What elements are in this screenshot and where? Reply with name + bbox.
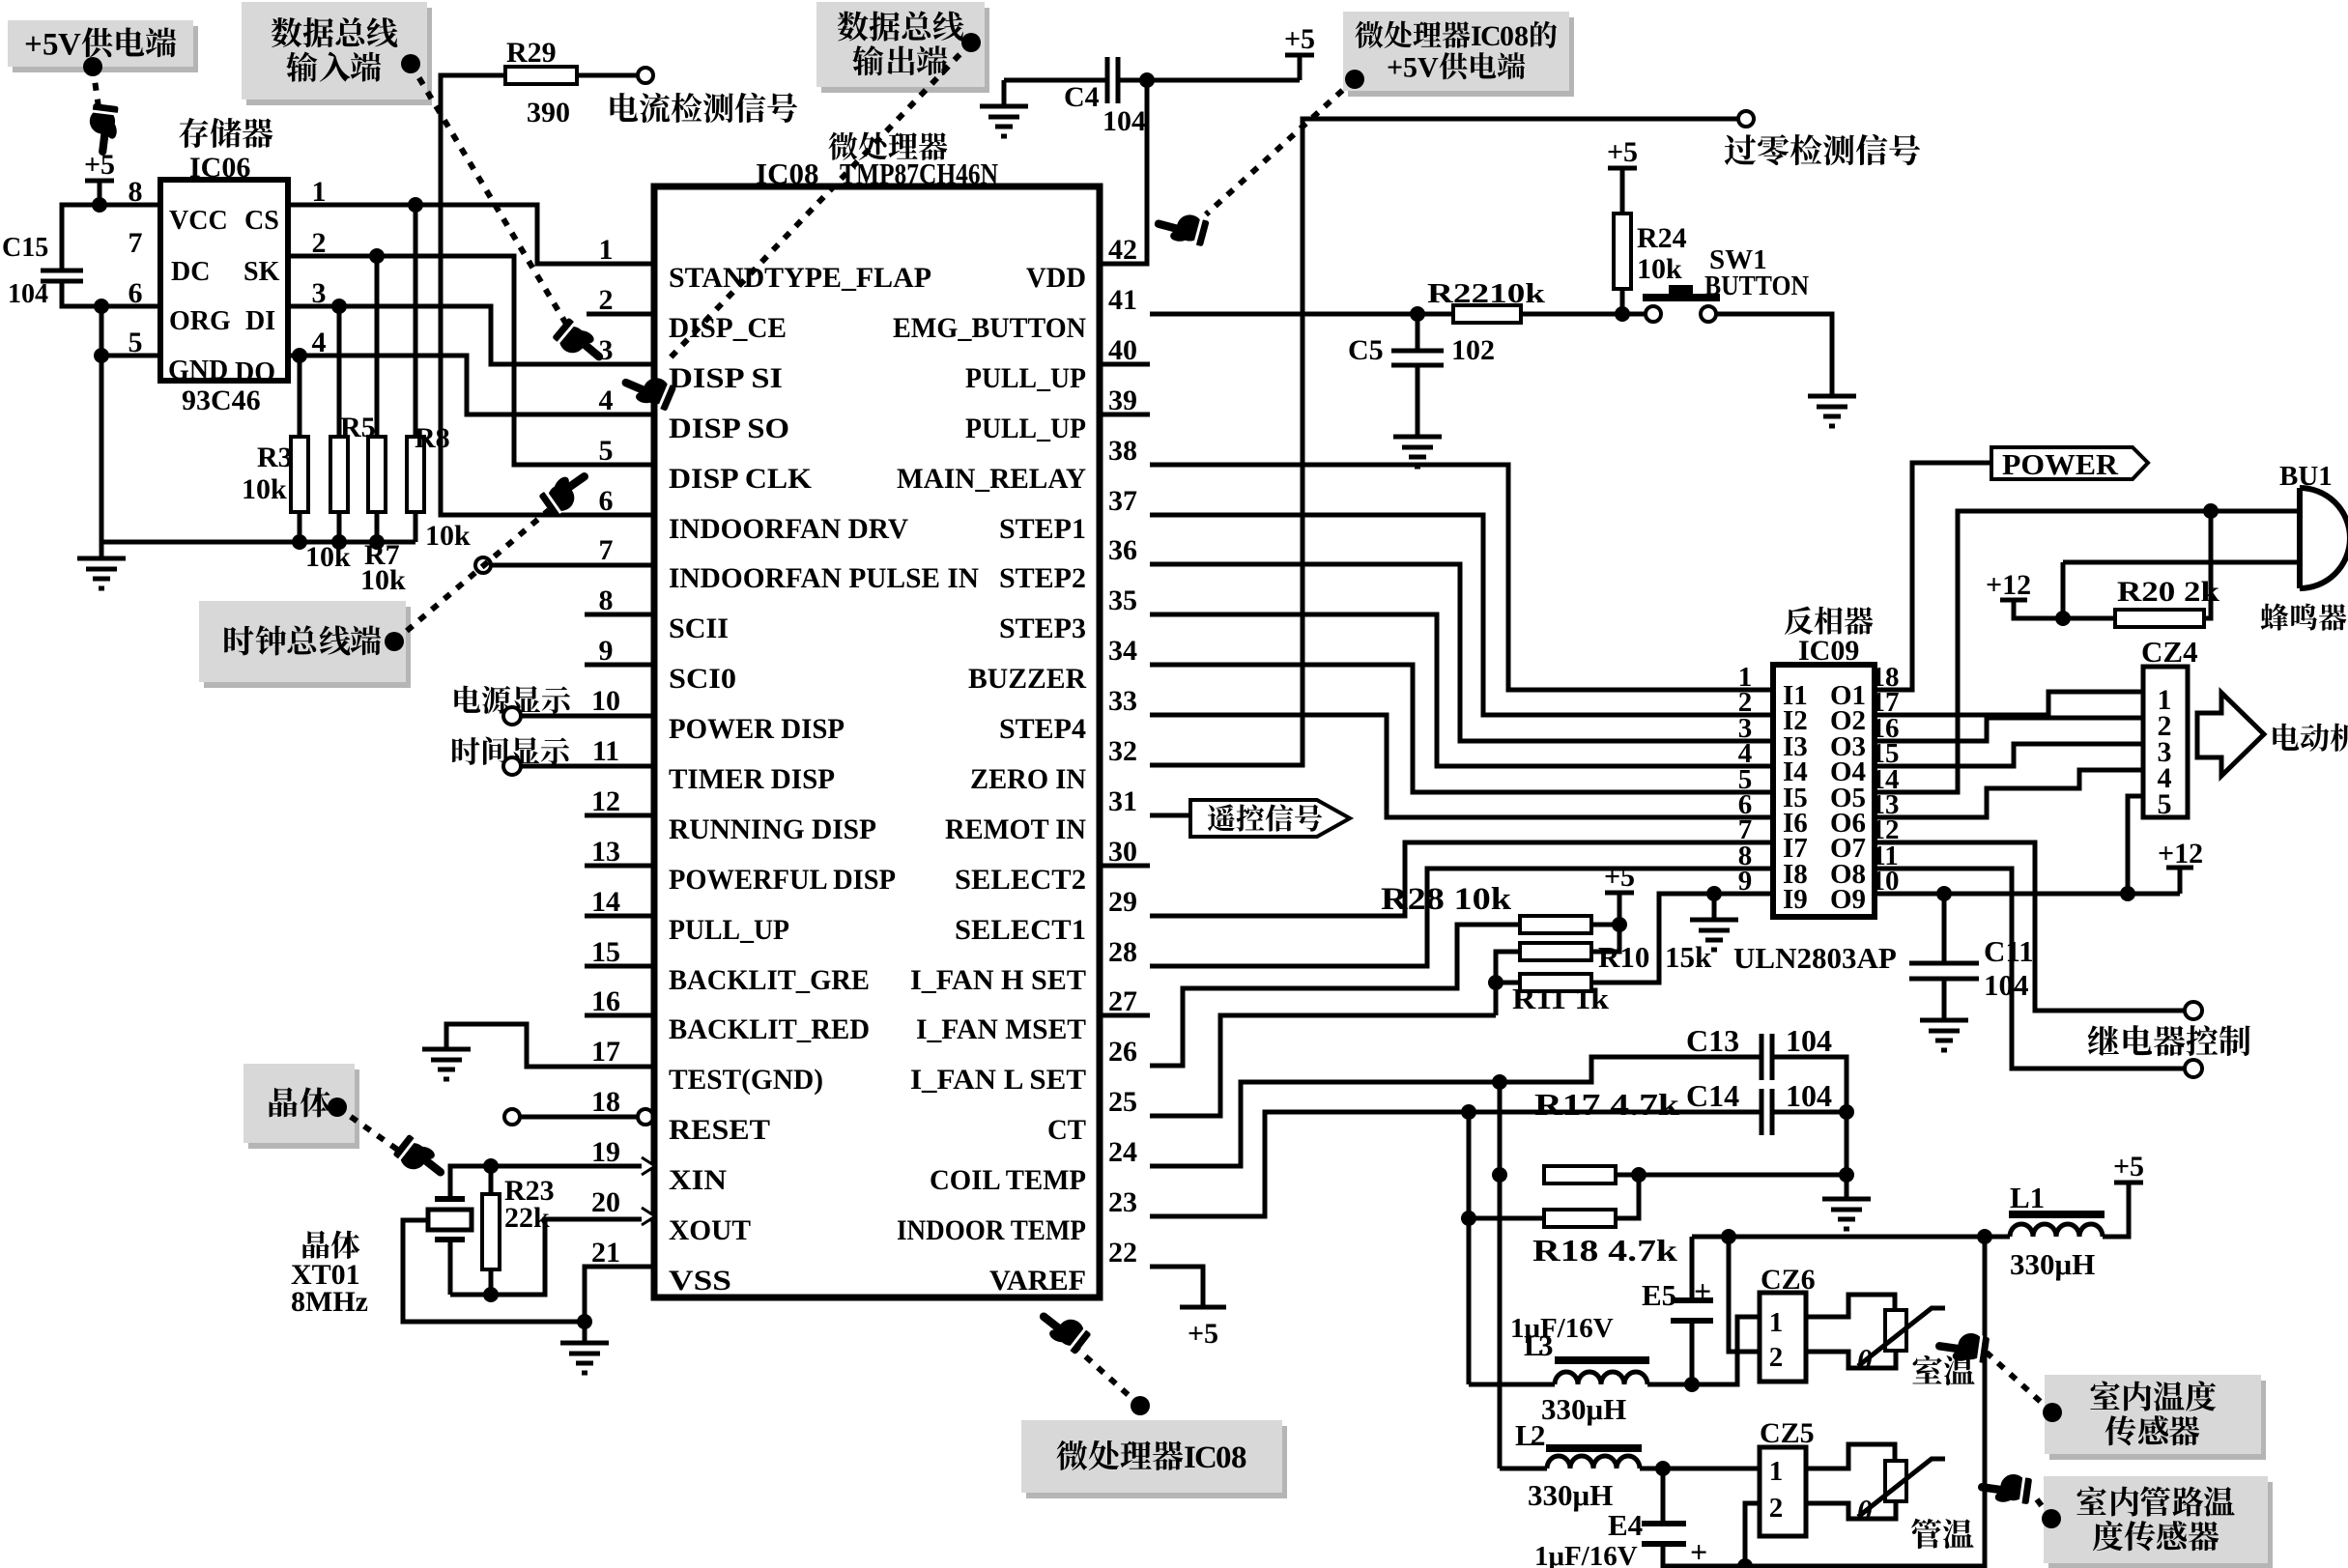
svg-text:10k: 10k — [1637, 253, 1682, 285]
svg-text:R28 10k: R28 10k — [1381, 882, 1512, 917]
svg-text:+: + — [24, 27, 43, 62]
svg-text:POWERFUL DISP: POWERFUL DISP — [669, 864, 896, 896]
svg-text:STANDTYPE_FLAP: STANDTYPE_FLAP — [669, 262, 931, 294]
callout 室内温度传感器 — [2045, 1375, 2266, 1460]
wire sensor supply rail — [1692, 1235, 2010, 1240]
svg-text:10k: 10k — [242, 473, 287, 505]
label 遥控信号 text — [1208, 804, 1322, 831]
junction R7/rail — [369, 534, 385, 550]
svg-text:C14: C14 — [1686, 1078, 1739, 1113]
svg-text:BACKLIT_RED: BACKLIT_RED — [669, 1013, 870, 1045]
wire C4 left to ground — [1004, 78, 1107, 83]
switch SW1 BUTTON — [1643, 285, 1720, 322]
svg-text:22: 22 — [1108, 1237, 1137, 1269]
block arrow 电动机 (motor) — [2197, 693, 2264, 776]
hand pointer at room thermistor — [1933, 1328, 1990, 1367]
wire stub IC09 output pin 10 — [1875, 892, 1895, 897]
terminal relay control 1 — [2185, 1002, 2202, 1019]
wire L3 left — [1469, 1383, 1555, 1387]
wire +5 to R24 top — [1620, 168, 1625, 214]
hand pointer at DISP SI — [551, 315, 612, 373]
crystal XT01 top plate — [435, 1196, 465, 1202]
wire +12 stem at O9 — [2178, 868, 2183, 894]
svg-text:COIL TEMP: COIL TEMP — [930, 1164, 1086, 1196]
svg-text:3: 3 — [599, 334, 614, 366]
svg-text:+5: +5 — [1188, 1318, 1218, 1350]
junction CZ6 pin2/rail — [1721, 1229, 1736, 1244]
junction C5/pin41 wire — [1410, 306, 1425, 322]
wire O2 to CZ4 pin1 — [1895, 692, 2143, 715]
wire L2 left — [1500, 1467, 1547, 1471]
callout G anchor dot — [1131, 1396, 1150, 1415]
wire R20 right to buzzer wire — [2204, 511, 2211, 618]
+5 supply at R24 — [1608, 166, 1637, 171]
crystal XT01 bottom plate — [435, 1237, 465, 1242]
svg-text:R5: R5 — [340, 412, 376, 443]
junction CZ5 branch/rail — [1977, 1229, 1992, 1244]
svg-text:VAREF: VAREF — [989, 1265, 1086, 1297]
svg-text:E5: E5 — [1642, 1278, 1676, 1312]
svg-text:TMP87CH46N: TMP87CH46N — [840, 157, 998, 190]
svg-text:34: 34 — [1108, 635, 1137, 667]
wire R8 bottom to rail — [414, 512, 418, 542]
resistor R8 — [407, 437, 424, 512]
wire IC08 pin19 XIN to crystal — [450, 1166, 654, 1199]
wire stub IC08 pin 27 — [1100, 1013, 1150, 1018]
+12 supply bar at O9 — [2166, 866, 2193, 870]
ground at C4 — [980, 106, 1028, 136]
inductor L3 coil — [1555, 1372, 1647, 1384]
junction C11 — [1936, 886, 1952, 901]
wire I9 ground stem — [1712, 894, 1717, 920]
label 反相器 (inverter) — [1785, 607, 1874, 635]
svg-text:18: 18 — [591, 1086, 620, 1118]
svg-text:7: 7 — [599, 534, 614, 566]
wire stub IC08 pin 16 — [585, 1013, 654, 1018]
wire +12 to R20 left — [2014, 600, 2115, 618]
svg-text:I_FAN MSET: I_FAN MSET — [916, 1013, 1086, 1045]
resistor R18 — [1544, 1210, 1616, 1227]
svg-text:VSS: VSS — [669, 1265, 731, 1297]
svg-text:REMOT IN: REMOT IN — [945, 813, 1086, 845]
wire stub IC08 pin 40 — [1100, 362, 1150, 367]
svg-text:+5: +5 — [1607, 136, 1638, 168]
wire ground rail vertical — [100, 306, 104, 542]
svg-text:POWER DISP: POWER DISP — [669, 713, 845, 745]
wire VAREF pin22 to +5 — [1150, 1267, 1203, 1307]
wire STEP2 pin36 to I3 — [1150, 564, 1753, 741]
label 电流检测信号 (current detect signal) — [611, 93, 798, 123]
svg-text:INDOOR TEMP: INDOOR TEMP — [897, 1214, 1086, 1246]
svg-text:C11: C11 — [1984, 934, 2034, 968]
hand pointer at DISP SO — [616, 365, 677, 414]
svg-text:35: 35 — [1108, 584, 1137, 616]
ground at SW1 — [1808, 396, 1856, 426]
svg-text:0: 0 — [1500, 20, 1514, 52]
callout F anchor dot — [328, 1098, 347, 1117]
svg-text:0: 0 — [1216, 1440, 1232, 1475]
wire COIL TEMP pin24 to C13 — [1150, 1057, 1761, 1166]
svg-text:R17 4.7k: R17 4.7k — [1534, 1087, 1679, 1122]
+5 supply at R28 — [1605, 891, 1634, 896]
wire I_FAN L SET pin26 to R28 — [1150, 925, 1520, 1066]
svg-text:SCII: SCII — [669, 613, 729, 644]
junction C14/ground leg — [1839, 1104, 1854, 1120]
wire CZ5 pin1 to thermistor — [1806, 1444, 1895, 1468]
capacitor C14 — [1761, 1089, 1772, 1135]
capacitor C13 — [1761, 1034, 1772, 1080]
svg-text:42: 42 — [1108, 234, 1137, 266]
wire O3 to CZ4 pin2 — [1895, 718, 2143, 741]
wire buzzer lower terminal — [2063, 560, 2300, 565]
junction ORG/ground rail — [94, 299, 109, 314]
svg-text:2: 2 — [1769, 1493, 1784, 1524]
svg-text:11: 11 — [592, 735, 619, 767]
terminal RESET left — [504, 1109, 520, 1125]
wire I_FAN H SET pin28 to I8 — [1150, 869, 1753, 966]
dashed leader to DISP SI hand — [411, 64, 570, 330]
svg-text:102: 102 — [1451, 334, 1495, 366]
svg-text:TIMER DISP: TIMER DISP — [669, 763, 835, 795]
svg-text:10k: 10k — [425, 520, 471, 552]
capacitor C11 — [1909, 963, 1979, 979]
wire CZ6 pin2 to thermistor bottom — [1806, 1351, 1896, 1368]
junction R24/R22/SW1 — [1615, 306, 1630, 322]
callout H anchor dot — [2043, 1403, 2062, 1422]
callout I anchor dot — [2042, 1509, 2061, 1528]
wire stem sensor ground — [1845, 1175, 1849, 1199]
label 管温 (pipe temperature) — [1911, 1519, 1974, 1549]
wire stub IC09 input pin 2 — [1753, 713, 1773, 718]
wire C14 right to ground leg — [1772, 1110, 1847, 1115]
svg-text:31: 31 — [1108, 785, 1137, 817]
resistor R7 — [368, 437, 386, 512]
svg-text:37: 37 — [1108, 485, 1137, 517]
svg-text:5: 5 — [1403, 52, 1417, 84]
wire R29 to current sense terminal — [577, 73, 638, 78]
wire stub IC09 output pin 16 — [1875, 739, 1895, 744]
svg-text:8: 8 — [1514, 20, 1529, 52]
wire crystal bottom — [448, 1240, 453, 1295]
wire DO to IC08 pin4 DISP SO — [288, 356, 654, 414]
svg-text:STEP1: STEP1 — [999, 513, 1086, 545]
wire DI to IC08 pin3 DISP SI — [288, 306, 654, 364]
wire stub IC08 pin2 DISP_CE — [587, 312, 654, 317]
svg-text:104: 104 — [1786, 1078, 1832, 1113]
svg-text:8MHz: 8MHz — [291, 1286, 368, 1318]
junction R8/CS — [408, 197, 423, 213]
wire IC08 pin41 EMG_BUTTON to R22 — [1150, 312, 1453, 317]
wire STEP3 pin35 to I4 — [1150, 614, 1753, 766]
svg-text:C4: C4 — [1064, 81, 1100, 113]
wire L3 right to CZ6 pin1 — [1647, 1317, 1760, 1384]
terminal relay control 2 — [2185, 1060, 2202, 1077]
junction +5/VCC — [92, 197, 107, 213]
svg-text:TEST(GND): TEST(GND) — [669, 1064, 823, 1096]
svg-text:+5: +5 — [2113, 1151, 2144, 1183]
callout 微处理器IC08 — [1021, 1420, 1287, 1498]
label 电源显示 (power display) — [454, 686, 570, 714]
wire pin24 node down to R17 — [1498, 1082, 1503, 1175]
label L2 — [1515, 1418, 1546, 1452]
svg-text:6: 6 — [599, 485, 614, 517]
svg-text:VDD: VDD — [1026, 262, 1086, 294]
junction R17 left — [1492, 1167, 1507, 1183]
label 电动机 text — [2273, 724, 2348, 752]
wire VDD feed to IC08 pin42 — [1100, 80, 1147, 264]
dashed leader to IC08 bottom hand — [1073, 1345, 1140, 1406]
svg-text:SELECT2: SELECT2 — [955, 864, 1086, 896]
signal flag POWER — [1991, 447, 2148, 479]
svg-text:25: 25 — [1108, 1086, 1137, 1118]
svg-text:30: 30 — [1108, 836, 1137, 868]
junction R5/rail — [331, 534, 347, 550]
+5 supply at IC06 VCC — [85, 179, 114, 184]
svg-text:SK: SK — [243, 257, 280, 287]
svg-text:BUTTON: BUTTON — [1704, 271, 1809, 301]
capacitor C5 — [1391, 351, 1444, 365]
svg-text:SCI0: SCI0 — [669, 663, 736, 695]
wire stub IC08 pin 30 — [1100, 864, 1150, 869]
wire R24 bottom — [1620, 289, 1625, 314]
svg-text:10: 10 — [591, 685, 620, 717]
svg-text:STEP2: STEP2 — [999, 562, 1086, 594]
ground below VSS — [560, 1343, 609, 1373]
svg-text:DI: DI — [245, 306, 275, 336]
hand pointer at IC08 bottom — [1032, 1300, 1093, 1357]
callout C anchor dot — [961, 33, 981, 52]
wire IC06 pin8 VCC to C15 rail — [62, 205, 160, 271]
svg-text:8: 8 — [599, 584, 614, 616]
wire CZ5 pin2 to thermistor bottom — [1806, 1501, 1896, 1519]
terminal 过零检测信号 — [1738, 111, 1754, 127]
svg-text:2: 2 — [1769, 1342, 1784, 1373]
dashed leader to VDD hand — [1206, 79, 1355, 214]
svg-text:R2210k: R2210k — [1427, 278, 1546, 309]
svg-text:32: 32 — [1108, 735, 1137, 767]
label 继电器控制 (relay control) — [2088, 1025, 2250, 1056]
IC chip IC06 93C46 body — [160, 180, 288, 381]
dashed leader to room sensor hand — [1987, 1353, 2052, 1412]
label L3 — [1524, 1328, 1554, 1362]
wire DI to R5 top — [337, 306, 342, 437]
wire SELECT1 pin29 to I7 — [1150, 842, 1753, 916]
svg-text:5: 5 — [599, 435, 614, 467]
svg-text:19: 19 — [591, 1136, 620, 1168]
wire IC08 pin17 TEST to ground — [446, 1024, 654, 1067]
wire DO to R3 top — [298, 356, 302, 437]
junction R3/rail — [292, 534, 307, 550]
wire pin24 node down to L2 — [1498, 1175, 1503, 1468]
wire +5 junction to R10 right — [1591, 893, 1619, 952]
wire IC06 pin5 GND — [101, 354, 160, 358]
hand pointer at DISP CLK — [536, 463, 597, 519]
wire stub IC08 pin 39 — [1100, 413, 1150, 417]
+5 supply inverted at VAREF — [1180, 1305, 1226, 1310]
+5 supply at L1 — [2114, 1181, 2143, 1185]
terminal 时间显示 — [503, 757, 521, 775]
wire C4 right to +5 — [1118, 78, 1300, 83]
svg-text:104: 104 — [8, 279, 48, 309]
svg-text:8: 8 — [1231, 1440, 1247, 1475]
callout 数据总线输入端 — [242, 2, 432, 105]
wire MAIN_RELAY pin38 to I1 — [1150, 465, 1753, 690]
svg-text:+: + — [1690, 1534, 1707, 1568]
svg-text:R29: R29 — [506, 37, 557, 69]
inductor L1 coil — [2010, 1224, 2103, 1237]
wire E4 top stem — [1661, 1468, 1666, 1524]
terminal RESET at pin — [638, 1109, 653, 1125]
svg-text:20: 20 — [591, 1186, 620, 1218]
wire CZ6 pin2 to supply rail — [1729, 1237, 1760, 1352]
svg-text:DISP SI: DISP SI — [669, 362, 783, 394]
svg-text:1μF/16V: 1μF/16V — [1534, 1541, 1638, 1568]
wire riser to CZ5 pin2 — [1745, 1503, 1760, 1566]
svg-text:23: 23 — [1108, 1186, 1137, 1218]
buzzer BU1 symbol — [2300, 488, 2348, 588]
label 晶体 (crystal) — [302, 1231, 359, 1259]
wire stem to ground — [100, 542, 104, 558]
svg-text:+: + — [1694, 1273, 1711, 1308]
svg-text:1μF/16V: 1μF/16V — [1510, 1313, 1614, 1344]
junction R5/DI — [331, 299, 347, 314]
wire stub IC09 output pin 17 — [1875, 713, 1895, 718]
junction R7/SK — [369, 248, 385, 264]
ground at IC09 pin9 — [1690, 920, 1738, 950]
svg-text:5: 5 — [2158, 788, 2172, 820]
svg-text:390: 390 — [527, 97, 570, 128]
svg-text:5: 5 — [43, 27, 59, 62]
svg-text:+: + — [1387, 52, 1403, 84]
resistor R24 — [1614, 214, 1631, 289]
svg-text:29: 29 — [1108, 886, 1137, 918]
wire R11 right to I9 — [1591, 894, 1753, 983]
wire stub IC09 input pin 4 — [1753, 764, 1773, 769]
wire BUZZER pin34 to I5 — [1150, 665, 1753, 792]
wire stub IC09 output pin 18 — [1875, 688, 1895, 693]
junction R23/XOUT rail — [483, 1287, 499, 1302]
wire stub IC09 input pin 9 — [1753, 892, 1773, 897]
svg-text:13: 13 — [591, 836, 620, 868]
wire C11 bottom stem — [1942, 979, 1947, 1020]
wire stub IC09 output pin 13 — [1875, 815, 1895, 820]
wire stub IC08 pin 15 — [585, 964, 654, 969]
svg-text:C: C — [1480, 20, 1502, 52]
junction I9/ground — [1706, 886, 1722, 901]
svg-text:17: 17 — [591, 1036, 620, 1068]
wire O5 to buzzer — [1895, 511, 2300, 792]
svg-text:INDOORFAN PULSE IN: INDOORFAN PULSE IN — [669, 562, 979, 594]
svg-text:IC08: IC08 — [756, 157, 818, 190]
svg-text:ORG: ORG — [169, 306, 231, 336]
ground at C5 — [1393, 437, 1442, 467]
IC chip IC09 ULN2803AP body — [1773, 665, 1875, 917]
dashed leader to pipe sensor hand — [2037, 1499, 2051, 1519]
wire resistor bottom rail — [101, 540, 415, 545]
wire STEP1 pin37 to I2 — [1150, 515, 1753, 715]
junction GND/ground rail — [94, 348, 109, 363]
svg-text:R24: R24 — [1637, 222, 1687, 254]
wire C13 right to ground leg — [1772, 1057, 1847, 1175]
wire stub IC08 pin 14 — [585, 914, 654, 919]
svg-text:IC09: IC09 — [1798, 635, 1859, 667]
capacitor C4 — [1107, 57, 1118, 103]
wire O4 to CZ4 pin3 — [1895, 744, 2143, 766]
svg-text:R10: R10 — [1598, 940, 1649, 974]
svg-text:PULL_UP: PULL_UP — [669, 914, 789, 946]
wire STEP4 pin33 to I6 — [1150, 715, 1753, 817]
wire C5 bottom stem — [1416, 365, 1420, 437]
svg-text:R18 4.7k: R18 4.7k — [1532, 1233, 1677, 1268]
callout 微处理器IC08的+5V供电端 — [1343, 12, 1574, 97]
wire R11 left — [1496, 981, 1520, 985]
ground at TEST pin — [422, 1049, 471, 1079]
svg-text:C5: C5 — [1348, 334, 1384, 366]
wire stub IC09 output pin 15 — [1875, 764, 1895, 769]
callout +5V供电端 — [8, 20, 198, 72]
svg-text:INDOORFAN DRV: INDOORFAN DRV — [669, 513, 908, 545]
wire stub IC08 pin 13 — [585, 864, 654, 869]
wire R18 left — [1469, 1216, 1545, 1221]
wire CS to R8 top — [414, 205, 418, 437]
svg-text:PULL_UP: PULL_UP — [965, 413, 1086, 444]
callout 时钟总线端 — [199, 601, 411, 688]
junction R10/R11/CT — [1488, 975, 1503, 990]
wire IC08 pin11 TIMER DISP — [521, 764, 654, 769]
svg-text:STEP3: STEP3 — [999, 613, 1086, 644]
junction +12/R20 — [2055, 611, 2071, 626]
svg-text:40: 40 — [1108, 334, 1137, 366]
svg-text:ULN2803AP: ULN2803AP — [1733, 941, 1897, 975]
wire buzzer lower to +12 node — [2061, 562, 2066, 618]
resistor R17 — [1544, 1166, 1616, 1183]
+5 supply at VDD — [1285, 53, 1314, 58]
wire L2 right to CZ5 pin1 — [1640, 1467, 1760, 1471]
svg-text:36: 36 — [1108, 534, 1137, 566]
svg-text:93C46: 93C46 — [182, 385, 261, 416]
thermistor RT2 (pipe sensor) body — [1885, 1461, 1906, 1501]
junction R20 riser/buzzer wire — [2203, 503, 2219, 519]
inductor L1 label bar — [2009, 1211, 2105, 1218]
IC chip IC08 TMP87CH46N body — [654, 186, 1100, 1297]
svg-text:16: 16 — [591, 985, 620, 1017]
svg-text:I_FAN H SET: I_FAN H SET — [910, 964, 1086, 996]
connector CZ6 body — [1760, 1293, 1806, 1382]
wire O8 to relay terminal 2 — [1895, 869, 2185, 1069]
svg-text:I9: I9 — [1783, 884, 1808, 915]
svg-text:15k: 15k — [1665, 940, 1712, 974]
svg-text:CS: CS — [244, 206, 279, 236]
XIN arrowhead at pin 19 — [642, 1157, 655, 1175]
capacitor E5 electrolytic — [1671, 1300, 1713, 1321]
thermistor RT1 (room sensor) body — [1885, 1310, 1906, 1351]
inductor L2 label bar — [1546, 1444, 1642, 1452]
ground at C11 — [1920, 1020, 1968, 1050]
dashed leader to DISP SO hand — [669, 43, 971, 359]
wire R23 bottom — [489, 1269, 494, 1295]
junction E5 bottom — [1684, 1377, 1700, 1392]
wire pin23 node down to L3 — [1467, 1112, 1472, 1384]
svg-text:28: 28 — [1108, 936, 1137, 968]
wire SW1 to ground — [1716, 314, 1832, 396]
wire IC08 pin21 VSS to ground — [585, 1267, 654, 1322]
wire SK to IC08 pin5 DISP CLK — [288, 256, 654, 465]
wire +5 stem to VCC — [98, 181, 102, 205]
svg-text:STEP4: STEP4 — [999, 713, 1086, 745]
hand pointer at crystal — [391, 1131, 452, 1188]
svg-text:SELECT1: SELECT1 — [955, 914, 1086, 946]
wire +5 stem — [1298, 55, 1303, 80]
